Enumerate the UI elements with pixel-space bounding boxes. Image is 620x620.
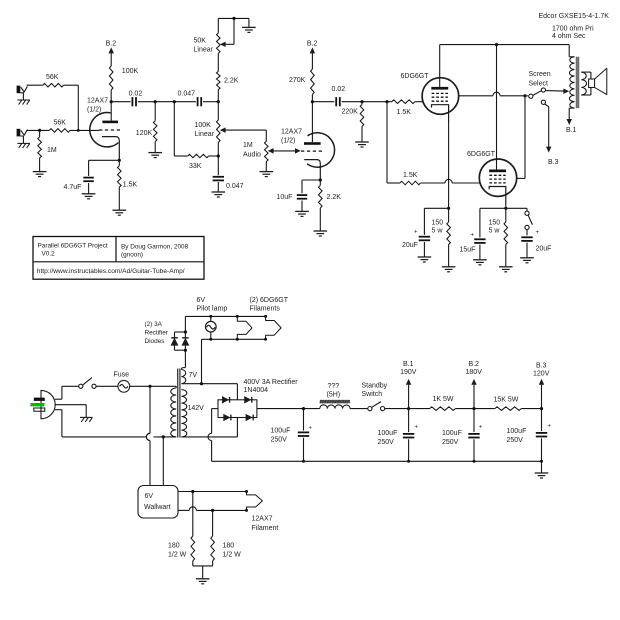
tube V3 control grid (dashed) — [489, 182, 505, 184]
wire V2 cathode to 150 ohm — [448, 122, 450, 222]
svg-text:7V: 7V — [189, 372, 198, 379]
svg-text:100uF: 100uF — [378, 430, 398, 437]
svg-text:Pilot lamp: Pilot lamp — [197, 306, 228, 313]
svg-text:5 w: 5 w — [489, 227, 501, 234]
label 56K (input 1) — [46, 74, 59, 81]
svg-text:1.5K: 1.5K — [123, 181, 138, 188]
ground under 20uF (V2) — [418, 257, 432, 262]
node diode top — [184, 330, 187, 333]
wire down to V3 grid run — [386, 102, 388, 183]
capacitor 0.02 (stage1 coupling) — [132, 97, 136, 106]
svg-text:Fuse: Fuse — [114, 372, 130, 379]
bridge diode top-left — [222, 397, 229, 403]
supply arrow B.1 (OT feed) — [566, 119, 577, 133]
node V1B cathode — [319, 178, 322, 181]
wire 0.02 to 120K node — [138, 101, 155, 103]
wire to 20uF (V2) — [424, 208, 448, 235]
wire rail down to OT primary — [569, 45, 574, 57]
svg-text:+: + — [471, 232, 475, 238]
svg-text:1M: 1M — [243, 142, 253, 149]
node diode bottom — [184, 349, 187, 352]
label ??? (5H) — [327, 383, 341, 398]
switch Standby (right contact) — [381, 407, 385, 411]
svg-text:150: 150 — [489, 220, 501, 227]
tube V1B plate lead — [311, 102, 313, 143]
label 6DG6GT (V3) — [467, 151, 496, 158]
svg-text:250V: 250V — [507, 437, 524, 444]
supply arrow B.2 (stage 2) — [307, 41, 318, 69]
switch power (left contact) — [79, 384, 83, 388]
label 100uF 250V (B.1) — [378, 430, 398, 446]
wire 50K top to ground run — [218, 18, 249, 33]
svg-text:+: + — [309, 425, 313, 431]
svg-text:6DG6GT: 6DG6GT — [467, 151, 496, 158]
label 12AX7 Filament — [252, 516, 279, 533]
capacitor 0.047 (tone) — [213, 177, 224, 181]
ground at rail end — [535, 461, 549, 478]
wire bridge AC2 (142V bottom) — [181, 418, 237, 437]
tube V3 cathode — [489, 187, 506, 205]
title text gnoon — [121, 251, 143, 258]
wallwart output top — [178, 491, 247, 493]
svg-text:???: ??? — [328, 383, 340, 390]
ground under 150 (V2) — [442, 267, 456, 272]
svg-text:B.2: B.2 — [106, 41, 117, 48]
tube V1A grid (dashed) — [99, 129, 121, 131]
plus mark B.3 cap — [548, 423, 552, 429]
AC plug (shell) — [41, 390, 55, 418]
tube V2 cathode — [432, 105, 449, 122]
wire 100K to plate node — [110, 90, 112, 102]
svg-text:1.5K: 1.5K — [397, 109, 412, 116]
node plate V1A — [110, 100, 113, 103]
label 270K — [289, 77, 306, 84]
pilot lamp PL1 — [206, 315, 217, 341]
wire 1.5K to V3 grid with hop over cathode line — [421, 179, 481, 183]
svg-text:250V: 250V — [271, 436, 288, 443]
wire corner to 33K — [174, 155, 187, 157]
label 12AX7 (1/2) V1A — [87, 98, 108, 114]
tube V2 plate lead — [439, 45, 441, 87]
switch cathode boost lever — [528, 215, 532, 224]
wire 7V bus down to bridge — [236, 384, 238, 400]
title block box — [33, 237, 204, 280]
tube V3 screen lead — [517, 177, 525, 179]
label 6DG6GT (V2) — [401, 73, 430, 80]
svg-text:400V 3A Rectifier: 400V 3A Rectifier — [244, 379, 299, 386]
resistor 1.5K (V1A cathode) — [118, 160, 122, 210]
heater V3 filament (chevron) — [264, 315, 281, 341]
node 180 (2) top — [211, 509, 214, 512]
svg-text:1K 5W: 1K 5W — [433, 396, 454, 403]
svg-text:Audio: Audio — [243, 152, 261, 159]
plus mark 20uF (boost) — [536, 230, 540, 236]
ground under 0.047 — [212, 192, 226, 197]
wire corner to 1.5K (2) — [387, 182, 400, 184]
label 0.047 (tone) — [226, 183, 244, 190]
switch Screen Select (throw to B.3) — [541, 100, 545, 104]
tube V1B 12AX7 envelope (open left) — [307, 133, 335, 167]
label 1.5K (V1A) — [123, 181, 138, 188]
svg-text:20uF: 20uF — [536, 245, 552, 252]
svg-text:180V: 180V — [466, 369, 483, 376]
plus mark 20uF (V2) — [414, 230, 418, 236]
output transformer primary winding — [570, 57, 575, 108]
plus mark B.2 cap — [479, 424, 483, 430]
resistor 180 1/2W (1) — [191, 492, 195, 561]
wire 180s to center ground — [193, 561, 213, 579]
tube V1A plate — [102, 121, 118, 124]
heater V2 filament (chevron) — [236, 315, 252, 341]
svg-text:2.2K: 2.2K — [327, 194, 342, 201]
wire switch to fuse — [96, 385, 118, 387]
svg-text:(5H): (5H) — [327, 391, 341, 398]
supply arrow B.3 (screen feed) — [547, 147, 559, 166]
capacitor 4.7uF (V1A bypass) — [83, 178, 94, 182]
svg-text:20uF: 20uF — [402, 242, 418, 249]
resistor 270K (plate load V1B) — [311, 69, 315, 94]
svg-text:250V: 250V — [378, 439, 395, 446]
svg-text:0.047: 0.047 — [178, 90, 196, 97]
svg-text:B.3: B.3 — [536, 363, 547, 370]
label 1M Audio — [243, 142, 261, 159]
svg-text:1M: 1M — [47, 147, 57, 154]
label 180 1/2 W (2) — [223, 542, 242, 558]
label 1K 5W — [433, 396, 454, 403]
tube V1A 12AX7 envelope (open right) — [90, 113, 119, 147]
power transformer 7V winding — [181, 368, 185, 384]
label 7V — [189, 372, 198, 379]
svg-text:100uF: 100uF — [442, 430, 462, 437]
wire J1 tip to 56K — [27, 84, 43, 86]
wire V3 cathode run — [505, 204, 507, 222]
svg-text:12AX7: 12AX7 — [281, 129, 302, 136]
svg-text:150: 150 — [432, 220, 444, 227]
label Standby Switch — [362, 382, 388, 398]
svg-text:190V: 190V — [400, 369, 417, 376]
resistor 33K — [188, 154, 209, 158]
wallwart box 6V — [138, 486, 178, 519]
label 12AX7 (1/2) V1B — [281, 129, 302, 145]
svg-text:6V: 6V — [145, 493, 154, 500]
svg-text:(1/2): (1/2) — [87, 106, 101, 113]
node 180 (1) top — [191, 490, 194, 493]
node wallwart feed — [148, 385, 151, 388]
wiper of 100K (arrow) to 1M pot — [221, 128, 266, 141]
tube V3 grid 2 (dashed) — [489, 178, 505, 180]
wire 0.047 to tone node — [203, 101, 218, 103]
svg-text:4 ohm Sec: 4 ohm Sec — [552, 33, 586, 40]
capacitor 100uF 250V (B.2) — [468, 409, 479, 463]
svg-text:0.02: 0.02 — [129, 90, 143, 97]
B+ rail segment 1 — [385, 408, 430, 410]
resistor 150 5w (V2 cathode) — [447, 222, 451, 245]
wire OT primary bottom to B.1 — [569, 108, 574, 119]
wire 150 to ground (V2) — [448, 245, 450, 267]
label 0.02 (stage1) — [129, 90, 143, 97]
capacitor 100uF 250V (B.3) — [536, 409, 547, 463]
node plate rail — [495, 43, 498, 46]
ground (chassis) at J1 sleeve — [17, 93, 29, 105]
label (2) 6DG6GT Filaments — [250, 297, 289, 312]
switch Screen Select lever — [533, 91, 542, 96]
svg-text:Screen: Screen — [529, 71, 551, 78]
AC plug ground prong (green) — [30, 403, 44, 406]
svg-text:15uF: 15uF — [460, 246, 476, 253]
wire 33K to pot bottom node — [209, 155, 219, 157]
capacitor 20uF (V2 cathode) — [419, 237, 430, 241]
tube V3 plate — [489, 170, 506, 173]
svg-text:0.02: 0.02 — [332, 86, 346, 93]
wiper of 50K (arrow) — [221, 18, 234, 46]
wire 15uF to ground — [479, 245, 481, 260]
plus mark reservoir cap — [309, 425, 313, 431]
label 50K Linear — [194, 38, 214, 54]
wire 7V bottom bus — [181, 383, 237, 385]
svg-text:1700 ohm Pri: 1700 ohm Pri — [552, 26, 594, 33]
svg-text:+: + — [479, 424, 483, 430]
wire bridge DC-minus — [212, 409, 218, 434]
wire J2 tip to node — [27, 129, 50, 131]
wire choke to standby switch — [350, 408, 368, 410]
svg-text:(gnoon): (gnoon) — [121, 251, 143, 258]
label 15uF — [460, 246, 476, 253]
svg-text:56K: 56K — [46, 74, 59, 81]
label 20uF (boost) — [536, 245, 552, 252]
svg-text:2.2K: 2.2K — [224, 78, 239, 85]
node 33K branch — [173, 100, 176, 103]
resistor 56K (input 2) — [49, 129, 70, 133]
node V3 cathode RC — [504, 207, 507, 210]
wire cathode bus (15uF to switch) — [480, 208, 527, 237]
switch Screen Select (common pole) — [529, 94, 533, 98]
ground under 150 (V3) — [499, 267, 513, 272]
wire 7V top to rectifier diodes — [184, 350, 186, 367]
title text author — [121, 243, 189, 250]
svg-text:B.2: B.2 — [468, 361, 479, 368]
plus mark 15uF — [471, 232, 475, 238]
svg-text:(2) 3A: (2) 3A — [145, 321, 163, 328]
tube V1B cathode — [304, 160, 320, 180]
label 1M — [47, 147, 57, 154]
resistor 2.2K (stage1) — [217, 71, 221, 89]
svg-text:Parallel 6DG6GT Project: Parallel 6DG6GT Project — [38, 242, 108, 249]
ground at 50K top — [242, 27, 256, 32]
resistor 1.5K (grid V2) — [392, 100, 415, 104]
switch cathode boost (top contact) — [525, 208, 529, 215]
label 0.047 (coupling) — [178, 90, 196, 97]
node J2/1M junction — [38, 129, 41, 132]
wire 50K to 2.2K — [217, 53, 219, 71]
resistor 15K 5W — [495, 407, 522, 411]
bridge diode top-right — [245, 397, 252, 403]
svg-text:B.1: B.1 — [566, 127, 577, 134]
wire 56K2 to grid of V1A — [70, 129, 99, 132]
svg-text:50K: 50K — [194, 38, 207, 45]
svg-text:Select: Select — [529, 80, 549, 87]
wire 270K to plate node — [311, 95, 313, 102]
capacitor 10uF (V1B bypass) — [297, 195, 307, 199]
svg-text:+: + — [414, 230, 418, 236]
plus mark B.1 cap — [415, 424, 419, 430]
tube V1B grid (dashed) — [301, 150, 323, 152]
svg-text:120K: 120K — [136, 130, 153, 137]
svg-text:Standby: Standby — [362, 382, 388, 389]
ground under 20uF (boost) — [520, 258, 534, 263]
wire throw2 down to B.3 arrow — [545, 104, 549, 147]
node V2 cathode RC — [447, 207, 450, 210]
label 15K 5W — [494, 396, 519, 403]
label 142V — [188, 405, 205, 412]
ground (chassis) mains earth — [80, 417, 92, 422]
label 100K — [122, 68, 139, 75]
label 4.7uF — [64, 184, 82, 191]
output transformer secondary winding — [581, 72, 586, 95]
svg-text:+: + — [415, 424, 419, 430]
tube V3 6DG6GT envelope — [479, 159, 516, 196]
svg-text:+: + — [548, 423, 552, 429]
resistor 180 1/2W (2) — [211, 510, 215, 560]
svg-text:By Doug Garmon, 2008: By Doug Garmon, 2008 — [121, 243, 189, 250]
rectifier diode D1 (3A) — [171, 332, 178, 350]
ground under 1.5K (V1A) — [113, 210, 127, 215]
svg-text:(2) 6DG6GT: (2) 6DG6GT — [250, 297, 289, 304]
resistor 1M — [38, 130, 42, 171]
label 120K — [136, 130, 153, 137]
svg-text:Diodes: Diodes — [145, 338, 165, 345]
node split to lower grid — [385, 100, 388, 103]
power transformer core — [178, 369, 180, 438]
wire diodes up to heater rail — [184, 316, 186, 332]
title text project — [38, 242, 108, 249]
wire to 33K branch node — [155, 101, 174, 103]
label 400V 3A Rectifier 1N4004 — [244, 379, 299, 394]
svg-text:Wallwart: Wallwart — [144, 504, 171, 511]
node pilot/heater return — [200, 382, 203, 385]
wire 4.7uF to ground — [88, 183, 90, 193]
wire screen bus vertical — [524, 96, 526, 179]
svg-text:1/2 W: 1/2 W — [168, 551, 187, 558]
label 100uF 250V (B.3) — [507, 428, 527, 444]
wire diode bottom bus — [175, 349, 186, 351]
node V1A cathode — [118, 159, 121, 162]
wire 20uF boost to ground — [526, 243, 528, 258]
supply arrow B.3 out — [533, 363, 550, 409]
wire diode top bus — [175, 331, 186, 333]
svg-text:Filament: Filament — [252, 525, 279, 532]
label 100uF 250V (B.2) — [442, 430, 462, 446]
title text version — [42, 250, 56, 257]
node tone stack top — [217, 100, 220, 103]
wire 1.5K to V2 grid — [415, 101, 423, 103]
capacitor 20uF (boost) — [521, 237, 532, 241]
capacitor 0.02 (stage2 coupling) — [336, 97, 340, 106]
label 150 5w (V3) — [489, 220, 501, 235]
ground (chassis) at J2 sleeve — [17, 136, 29, 148]
title text url — [37, 268, 185, 275]
resistor 120K — [153, 102, 157, 153]
wire 33K branch down — [173, 102, 175, 156]
label 1.5K (grid V3) — [403, 172, 418, 179]
capacitor 0.047 (stage1 coupling) — [198, 97, 202, 106]
svg-text:220K: 220K — [342, 109, 359, 116]
supply arrow B.2 (stage 1) — [106, 41, 117, 66]
svg-text:15K 5W: 15K 5W — [494, 396, 519, 403]
label 180 1/2 W (1) — [168, 542, 187, 558]
node 120K top — [154, 100, 157, 103]
capacitor 15uF (V3 cathode) — [474, 239, 485, 243]
label 6V Wallwart — [144, 493, 171, 511]
svg-text:0.047: 0.047 — [226, 183, 244, 190]
svg-text:(1/2): (1/2) — [281, 137, 295, 144]
node B.3 — [540, 407, 543, 410]
rectifier diode D2 (3A) — [182, 332, 189, 350]
fuse F1 — [118, 380, 130, 392]
svg-text:33K: 33K — [189, 163, 202, 170]
svg-text:Filaments: Filaments — [250, 306, 281, 313]
AC plug hot prong — [34, 398, 45, 401]
label 2.2K (V1B cathode) — [327, 194, 342, 201]
wire throw1 to OT primary (arrow) — [546, 89, 569, 93]
wire 20uF to ground — [423, 242, 425, 257]
svg-text:B.3: B.3 — [548, 159, 559, 166]
svg-text:1N4004: 1N4004 — [244, 387, 269, 394]
svg-text:100uF: 100uF — [271, 428, 291, 435]
B+ rail segment 2 — [455, 408, 494, 410]
svg-text:5 w: 5 w — [432, 227, 444, 234]
bridge diode bottom-left — [224, 415, 231, 421]
ground under 2.2K — [314, 231, 328, 236]
svg-text:4.7uF: 4.7uF — [64, 184, 82, 191]
wire pot bottom to cap — [217, 143, 219, 176]
label 150 5w (V2) — [432, 220, 444, 235]
AC plug neutral prong — [34, 408, 45, 411]
node plate V1B — [311, 100, 314, 103]
tube V1B plate — [304, 142, 321, 145]
wire switch to 20uF (boost) — [526, 230, 528, 236]
ground under 120K — [148, 153, 162, 158]
ground under 1M — [33, 172, 47, 177]
wire neutral down to wallwart — [162, 437, 164, 486]
wiper of 1M (arrow) to V1B grid — [269, 149, 300, 153]
svg-text:1.5K: 1.5K — [403, 172, 418, 179]
svg-text:270K: 270K — [289, 77, 306, 84]
tube V2 control grid (dashed) — [432, 100, 448, 102]
capacitor 100uF 250V (B.1) — [403, 409, 414, 463]
node first filter cap — [302, 407, 305, 410]
tube V2 plate — [431, 87, 448, 90]
hop DC-minus over 142V wire — [208, 433, 212, 440]
wire neutral from plug — [55, 410, 146, 437]
power transformer 142V winding — [181, 390, 186, 437]
wire fuse to transformer primary — [130, 385, 177, 387]
svg-text:120V: 120V — [533, 370, 550, 377]
node 220K top — [360, 100, 363, 103]
switch cathode boost (bottom contact) — [525, 225, 529, 229]
node 142V bottom to wallwart — [162, 435, 165, 438]
output transformer core — [576, 57, 580, 108]
svg-text:Edcor GXSE15-4-1.7K: Edcor GXSE15-4-1.7K — [539, 13, 610, 20]
heater bottom rail — [202, 339, 266, 383]
switch Standby lever — [372, 402, 381, 408]
supply arrow B.1 out — [400, 361, 417, 409]
label Fuse — [114, 372, 130, 379]
ground rail (bottom) — [212, 460, 542, 462]
heater 12AX7 filament (chevron) — [245, 490, 262, 512]
label 1.5K (grid V2) — [397, 109, 412, 116]
ground under 220K — [355, 142, 369, 147]
label 100uF 250V (reservoir) — [271, 428, 291, 444]
